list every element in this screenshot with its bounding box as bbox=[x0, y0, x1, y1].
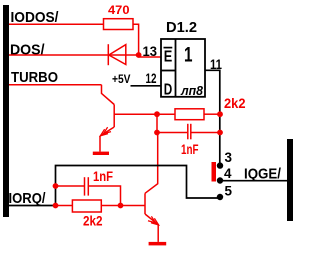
emitter arrow of Q2 bbox=[148, 216, 159, 225]
node junction 1nF left bbox=[154, 130, 160, 136]
pin 4 of connector bbox=[217, 177, 223, 183]
svg-text:D: D bbox=[164, 81, 173, 98]
svg-text:E: E bbox=[164, 49, 173, 66]
svg-text:2k2: 2k2 bbox=[83, 213, 103, 229]
resistor 2k2 (upper) bbox=[157, 109, 220, 120]
junction node at diode/resistor bbox=[136, 52, 142, 58]
junction IORQ / 1nF branch bbox=[53, 183, 59, 189]
pin 5 of connector bbox=[217, 194, 223, 200]
svg-text:TURBO: TURBO bbox=[11, 69, 58, 86]
ground of Q2 bbox=[149, 242, 167, 246]
overline of E bbox=[164, 47, 173, 49]
wire DOS/ bbox=[9, 54, 139, 56]
svg-text:4: 4 bbox=[224, 165, 232, 181]
pin 3 of connector bbox=[217, 162, 223, 168]
junction 2k2 right on output net bbox=[217, 111, 223, 117]
right connector bus bar bbox=[287, 139, 293, 221]
svg-text:3: 3 bbox=[225, 149, 233, 165]
svg-text:1nF: 1nF bbox=[93, 168, 113, 184]
wire IODOS/ to resistor 470 bbox=[9, 23, 104, 25]
svg-text:470: 470 bbox=[108, 3, 130, 17]
junction IORQ / 2k2 branch bbox=[53, 203, 59, 209]
node A junction (base / 2k2 left) bbox=[154, 111, 160, 117]
junction 1nF right on output net bbox=[217, 130, 223, 136]
diode (cathode bar left, triangle pointing left) bbox=[108, 44, 126, 65]
svg-text:1: 1 bbox=[184, 44, 193, 67]
wire +5V to pin 12 D input bbox=[131, 85, 162, 87]
svg-text:1nF: 1nF bbox=[181, 141, 199, 157]
emitter arrow of Q1 bbox=[100, 127, 111, 136]
wire IORQ node vertical (black) bbox=[56, 166, 221, 206]
wire IORQ/ from bus (black) bbox=[9, 205, 56, 207]
junction 1nF/2k2 right to Q2 base bbox=[118, 203, 124, 209]
jumper bar pins 3-4 bbox=[212, 162, 217, 182]
wire TURBO to Q1 collector bbox=[9, 84, 102, 86]
wire Q2 collector to node A net bbox=[145, 133, 158, 194]
wire Q1 base to node A bbox=[114, 113, 157, 115]
svg-text:D1.2: D1.2 bbox=[166, 19, 197, 36]
transistor Q1 bbox=[100, 85, 114, 152]
svg-text:лп8: лп8 bbox=[180, 83, 204, 98]
svg-text:13: 13 bbox=[143, 43, 158, 59]
wire pin 11 output bbox=[205, 70, 220, 165]
wire pin 4 to IQGE/ bbox=[220, 180, 287, 182]
svg-text:12: 12 bbox=[146, 70, 157, 86]
svg-text:2k2: 2k2 bbox=[224, 95, 246, 111]
transistor Q2 bbox=[145, 193, 159, 242]
wire node A vertical bbox=[156, 114, 158, 132]
resistor 470 bbox=[104, 19, 139, 55]
ground of Q1 bbox=[93, 152, 109, 155]
IC D1.2 body bbox=[161, 39, 205, 97]
capacitor 1nF (lower) bbox=[56, 177, 121, 205]
wire to pin 13 E input bbox=[139, 56, 162, 58]
capacitor 1nF (upper) bbox=[157, 124, 220, 140]
left connector bus bar bbox=[3, 5, 9, 217]
resistor 2k2 (lower) bbox=[56, 200, 146, 212]
svg-text:IQGE/: IQGE/ bbox=[244, 166, 282, 183]
svg-text:+5V: +5V bbox=[112, 72, 131, 86]
svg-text:5: 5 bbox=[225, 182, 233, 198]
